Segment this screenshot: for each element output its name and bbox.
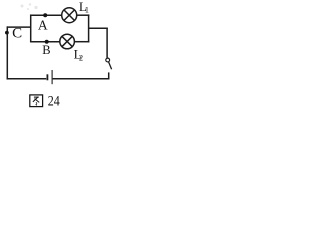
svg-text:A: A xyxy=(38,17,48,32)
battery cell: short thick negative plate xyxy=(46,74,48,80)
svg-text:B: B xyxy=(42,43,50,57)
lamp L1 xyxy=(62,8,77,23)
node B (junction dot) xyxy=(45,40,49,44)
battery cell: long thin positive plate xyxy=(51,70,53,84)
wire bottom branch left segment xyxy=(31,41,60,43)
wire mid horizontal to right side xyxy=(89,27,108,29)
wire left vertical down from C xyxy=(6,26,8,79)
label L2 xyxy=(74,46,84,62)
lamp L2 xyxy=(60,34,75,49)
switch S upper terminal circle xyxy=(106,58,110,62)
label L1 xyxy=(79,0,89,14)
svg-text:24: 24 xyxy=(48,94,61,110)
wire bottom battery to switch xyxy=(53,78,110,80)
wire switch lower terminal xyxy=(108,72,110,79)
faint scan speckles top-left xyxy=(21,3,38,10)
svg-text:1: 1 xyxy=(85,4,89,14)
switch S lever (open) xyxy=(109,62,112,69)
svg-text:2: 2 xyxy=(79,53,83,63)
wire top branch left segment xyxy=(31,14,62,16)
wire from node C to left bus xyxy=(7,26,30,28)
node C (junction dot) xyxy=(5,31,9,35)
caption: hand-drawn glyph for Chinese character 图 xyxy=(30,95,43,107)
wire right bus vertical (joins L1 and L2 outputs) xyxy=(88,14,90,42)
svg-text:C: C xyxy=(12,26,22,42)
wire top branch right segment xyxy=(77,14,90,16)
wire bottom branch right segment xyxy=(74,41,89,43)
wire right vertical down to switch xyxy=(106,28,108,58)
wire left bus vertical xyxy=(30,14,32,42)
node A (junction dot) xyxy=(43,13,47,17)
wire bottom left to battery xyxy=(7,78,47,80)
